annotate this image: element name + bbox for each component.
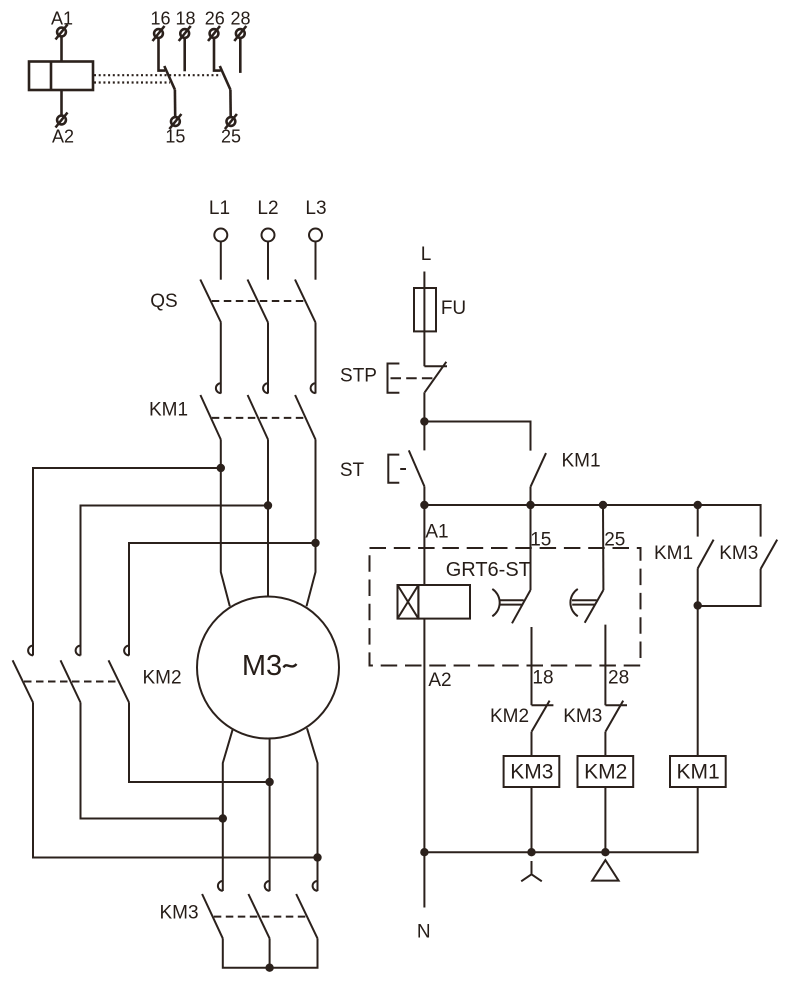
wire U tap to KM2 pole 1	[33, 468, 221, 656]
KM3 pole 3 blade	[296, 894, 317, 938]
svg-text:KM3: KM3	[719, 543, 758, 564]
terminal 26 screw	[208, 26, 220, 41]
linkage dotted line upper	[94, 74, 221, 76]
junction dot KM1/KM3	[694, 601, 702, 609]
junction dot U2	[219, 814, 227, 822]
KM1 aux2 blade	[698, 540, 714, 569]
pin 18 wire	[183, 38, 186, 71]
KM3 star point bus	[223, 938, 318, 967]
timer GRT6-ST dashed box	[370, 548, 641, 666]
KM2 pole 3 blade	[109, 660, 130, 702]
KM2 pole 3 fixed contact hook	[124, 646, 129, 656]
svg-text:L3: L3	[305, 198, 326, 219]
timer coil symbol	[398, 585, 471, 619]
wire motor W2 bottom right	[307, 728, 318, 891]
pin 25 wire	[229, 90, 232, 117]
svg-text:A1: A1	[425, 522, 448, 543]
wire contact 18 down	[531, 627, 533, 705]
KM3 aux blade	[761, 540, 778, 569]
KM1 pole 1 fixed contact hook	[216, 383, 221, 393]
coil KM2 box	[578, 756, 634, 787]
timed contact 15-18 delay arc	[492, 589, 499, 616]
terminal L3	[309, 229, 322, 242]
wire KM1 pole2 to motor V	[267, 440, 269, 597]
svg-text:KM2: KM2	[142, 668, 181, 689]
terminal L2	[262, 229, 275, 242]
STP fixed contact bar	[424, 365, 447, 367]
KM1 linkage dashed	[212, 417, 306, 419]
wire L2 to QS	[267, 242, 269, 280]
timed contact 15-18 blade	[512, 590, 531, 623]
wire bus to contact 25	[602, 505, 604, 590]
svg-text:A2: A2	[428, 670, 451, 691]
KM1 pole 1 blade	[200, 395, 220, 440]
N bus with KM1 leg	[424, 787, 697, 852]
wire self-hold branch	[424, 422, 530, 451]
wire L1 to QS	[220, 242, 222, 280]
svg-text:KM3: KM3	[159, 903, 198, 924]
KM3 pole 3 fixed contact hook	[313, 881, 318, 891]
svg-text:STP: STP	[340, 366, 377, 387]
terminal A1 screw	[56, 25, 68, 40]
svg-text:16: 16	[150, 9, 170, 29]
svg-text:KM1: KM1	[149, 400, 188, 421]
KM1 pole 2 blade	[248, 395, 268, 440]
timed contact 25-28 blade	[585, 590, 604, 623]
svg-text:KM3: KM3	[563, 706, 602, 727]
wire KM1 pole1 to motor U	[221, 440, 230, 607]
svg-text:15: 15	[165, 127, 185, 147]
svg-text:18: 18	[532, 668, 553, 689]
node after STP junction dot	[420, 417, 428, 425]
svg-text:GRT6-ST: GRT6-ST	[446, 559, 531, 581]
svg-text:26: 26	[205, 9, 225, 29]
wire QS to KM1 pole 3	[315, 323, 317, 394]
svg-text:L: L	[421, 244, 432, 265]
timed contact 25-28 link lines	[572, 600, 597, 604]
KM2 pole 1 blade	[13, 660, 33, 702]
motor M3~ body	[197, 597, 339, 739]
svg-text:A1: A1	[51, 9, 73, 29]
svg-text:M3: M3	[242, 650, 282, 682]
svg-text:L2: L2	[257, 198, 278, 219]
wire W tap to KM2 pole 3	[129, 543, 316, 656]
svg-text:15: 15	[530, 530, 551, 551]
ST actuator bracket	[388, 455, 399, 483]
wire bus to timer coil A1	[423, 505, 425, 585]
wire ST to bus	[423, 486, 425, 505]
KM2 pole 1 fixed contact hook	[28, 646, 33, 656]
coil KM1 box	[670, 756, 726, 787]
KM3 NC blade	[605, 701, 623, 732]
wire KM1 aux to bus	[530, 487, 532, 505]
relay coil KT	[29, 62, 93, 91]
contact 15-16 blade	[164, 66, 175, 90]
star point junction dot	[265, 964, 273, 972]
control bus	[424, 505, 760, 537]
coil KM3 box	[504, 756, 560, 787]
motor tilde mark	[284, 664, 297, 668]
KM1 pole 3 blade	[295, 395, 315, 440]
STP actuator bracket	[388, 364, 400, 393]
QS pole 1 blade	[200, 280, 221, 323]
svg-text:QS: QS	[150, 291, 177, 312]
star symbol	[521, 861, 542, 881]
wire KM2 NC to coil KM3	[531, 732, 533, 756]
KM2 linkage dashed	[24, 681, 118, 683]
wire KM3 aux join	[698, 569, 761, 606]
QS pole 3 blade	[295, 280, 316, 323]
STP actuator dashed link	[391, 377, 434, 379]
svg-text:L1: L1	[209, 198, 230, 219]
wire V tap to KM2 pole 2	[81, 506, 269, 656]
KM3 pole 2 blade	[248, 894, 269, 938]
ST blade	[409, 450, 425, 486]
pin 26 wire	[214, 38, 221, 70]
KM2 pole 2 blade	[61, 660, 81, 702]
KM2 NC blade	[532, 701, 550, 732]
terminal A2 screw	[56, 113, 68, 128]
svg-text:KM1: KM1	[677, 761, 720, 784]
svg-text:25: 25	[221, 127, 241, 147]
node V junction dot	[264, 501, 272, 509]
wire motor V2 bottom middle	[269, 738, 271, 891]
KM3 pole 1 fixed contact hook	[218, 881, 223, 891]
wire KM1 pole3 to motor W	[307, 440, 316, 607]
wire coil to A2	[60, 90, 63, 116]
terminal 18 screw	[179, 26, 191, 41]
STP blade	[425, 362, 447, 393]
wire L to STP	[423, 272, 425, 367]
svg-text:18: 18	[175, 9, 195, 29]
svg-text:KM1: KM1	[654, 543, 693, 564]
N bus junction dot KM3	[527, 848, 535, 856]
fuse FU	[414, 288, 436, 331]
pin 16 wire	[159, 38, 166, 70]
terminal L1	[214, 229, 227, 242]
KM3 linkage dashed	[214, 916, 306, 918]
KM1 pole 3 fixed contact hook	[311, 383, 316, 393]
svg-text:ST: ST	[340, 460, 365, 481]
bus junction dot ST	[420, 501, 428, 509]
wire bus to contact 15	[530, 505, 532, 590]
pin 28 wire	[239, 38, 242, 73]
KM3 NC fixed bar	[605, 704, 627, 706]
svg-text:25: 25	[604, 530, 625, 551]
wire contact 28 down	[604, 625, 606, 706]
bus junction dot 25	[599, 501, 607, 509]
delta symbol	[592, 860, 618, 881]
svg-text:KM2: KM2	[490, 706, 529, 727]
N bus junction dot KM2	[601, 848, 609, 856]
junction dot V2	[265, 778, 273, 786]
wire KM2 pole3 to motor V2	[129, 703, 270, 783]
wire KM1 aux2 to coil KM1	[697, 569, 699, 757]
KM1 self-hold aux blade	[531, 453, 547, 487]
KM3 pole 2 to star bus	[269, 938, 271, 967]
svg-text:FU: FU	[441, 298, 466, 319]
QS pole 2 blade	[248, 280, 269, 323]
terminal 15 screw	[169, 114, 181, 129]
KM3 pole 2 fixed contact hook	[265, 881, 270, 891]
ST actuator dash stub	[400, 468, 406, 470]
wire L3 to QS	[315, 242, 317, 280]
terminal 16 screw	[153, 26, 165, 41]
svg-text:N: N	[417, 922, 431, 943]
timed contact 25-28 delay arc	[570, 589, 577, 616]
wire KM2 pole2 to motor U2	[81, 703, 223, 819]
wire timer coil A2 to N	[423, 619, 425, 908]
svg-text:28: 28	[608, 668, 629, 689]
svg-text:KM3: KM3	[510, 761, 553, 784]
svg-text:28: 28	[230, 9, 250, 29]
KM2 pole 2 fixed contact hook	[76, 646, 81, 656]
N bus junction dot A2	[420, 848, 428, 856]
terminal 28 screw	[234, 26, 246, 41]
wire QS to KM1 pole 1	[220, 323, 222, 394]
KM3 pole 1 blade	[202, 894, 223, 938]
contact 25-26 blade	[220, 66, 231, 90]
wire QS to KM1 pole 2	[267, 323, 269, 394]
linkage dotted line lower	[94, 81, 170, 83]
wire KM2 pole1 to motor W2	[33, 703, 318, 858]
timed contact 15-18 link lines	[500, 600, 524, 604]
KM1 pole 2 fixed contact hook	[263, 383, 268, 393]
wire bus to KM1 aux2	[697, 505, 699, 537]
node U junction dot	[217, 464, 225, 472]
wire A1 to coil	[60, 37, 63, 62]
bus junction dot 15	[526, 501, 534, 509]
QS linkage dashed	[212, 300, 306, 302]
terminal 25 screw	[225, 114, 237, 129]
svg-text:KM2: KM2	[584, 761, 627, 784]
wire motor U2 bottom left	[223, 728, 233, 891]
KM2 NC fixed bar	[532, 704, 554, 706]
wire STP to ST	[423, 392, 425, 450]
svg-text:A2: A2	[52, 127, 74, 147]
svg-text:KM1: KM1	[561, 451, 600, 472]
node W junction dot	[311, 539, 319, 547]
wire KM3 NC to coil KM2	[604, 732, 606, 756]
pin 15 wire	[174, 90, 177, 117]
bus junction dot KM1 branch	[694, 501, 702, 509]
wire coil KM3 to N bus	[531, 787, 533, 852]
junction dot W2	[313, 853, 321, 861]
wire coil KM2 to N bus	[604, 787, 606, 852]
